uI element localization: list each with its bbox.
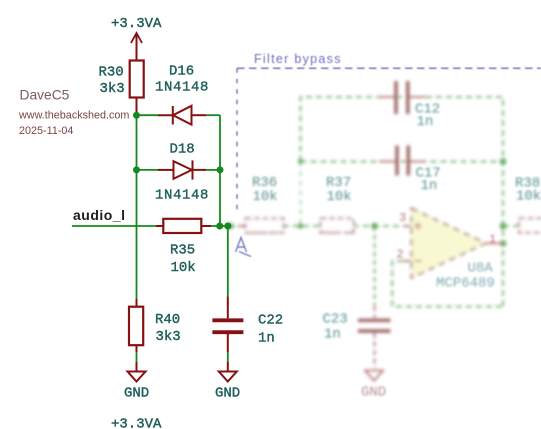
resistor R38 (clipped at right edge) bbox=[519, 219, 541, 233]
wire right vertical (diode return) bbox=[219, 115, 221, 226]
svg-text:D16: D16 bbox=[169, 64, 194, 80]
capacitor C17 bbox=[397, 146, 408, 176]
svg-text:1n: 1n bbox=[258, 331, 275, 347]
svg-text:1N4148: 1N4148 bbox=[155, 80, 209, 96]
svg-text:Filter bypass: Filter bypass bbox=[254, 52, 342, 66]
capacitor C23 pin stubs bbox=[374, 306, 376, 368]
svg-text:10k: 10k bbox=[327, 189, 352, 205]
op-amp + - marks bbox=[414, 222, 422, 261]
svg-text:+3.3VA: +3.3VA bbox=[111, 417, 162, 429]
svg-text:C23: C23 bbox=[323, 312, 348, 328]
svg-text:GND: GND bbox=[361, 385, 386, 401]
svg-text:3k3: 3k3 bbox=[156, 329, 181, 345]
svg-text:R30: R30 bbox=[99, 64, 124, 80]
wire audio_l bbox=[72, 225, 156, 227]
svg-text:R35: R35 bbox=[170, 243, 195, 259]
svg-text:2025-11-04: 2025-11-04 bbox=[19, 125, 73, 137]
node A marker bbox=[236, 238, 252, 257]
op-amp U8A bbox=[412, 209, 486, 278]
svg-text:1n: 1n bbox=[421, 178, 438, 194]
svg-text:1n: 1n bbox=[324, 327, 341, 343]
wire audio path (blurred section) bbox=[229, 225, 403, 227]
capacitor C12 bbox=[396, 81, 408, 114]
svg-text:1: 1 bbox=[489, 233, 496, 247]
wire C22 branch vertical bbox=[227, 226, 229, 296]
wire R36 left pin stub bbox=[238, 225, 246, 227]
svg-text:D18: D18 bbox=[170, 141, 195, 157]
op-amp pin 2 stub bbox=[403, 260, 412, 262]
node junction D16 bbox=[133, 112, 140, 119]
svg-text:1N4148: 1N4148 bbox=[155, 188, 209, 204]
svg-text:www.thebackshed.com: www.thebackshed.com bbox=[18, 110, 129, 122]
svg-text:3: 3 bbox=[399, 211, 406, 225]
svg-text:3k3: 3k3 bbox=[100, 81, 125, 97]
node junction output/R38 bbox=[500, 223, 507, 230]
capacitor C22 bbox=[212, 320, 243, 332]
svg-text:C22: C22 bbox=[258, 312, 283, 328]
svg-text:2: 2 bbox=[397, 248, 404, 262]
ground symbol (C22) bbox=[219, 372, 237, 382]
svg-text:GND: GND bbox=[124, 386, 149, 402]
node junction R36/R37 bbox=[298, 223, 304, 229]
resistor R35 bbox=[156, 225, 163, 227]
svg-text:10k: 10k bbox=[253, 189, 278, 205]
pin numbers U8A bbox=[397, 211, 497, 262]
node junction R35/R36 bbox=[227, 223, 234, 230]
node junction C17 left bbox=[298, 159, 303, 164]
resistor R37 bbox=[321, 219, 354, 233]
node junction output pin bbox=[500, 240, 507, 247]
svg-text:DaveC5: DaveC5 bbox=[20, 87, 70, 102]
svg-text:10k: 10k bbox=[516, 189, 541, 205]
svg-text:R40: R40 bbox=[155, 312, 180, 328]
svg-text:U8A: U8A bbox=[468, 261, 494, 277]
svg-text:audio_l: audio_l bbox=[73, 207, 126, 223]
node junction C17 right bbox=[500, 158, 507, 165]
resistor R36 bbox=[246, 219, 284, 233]
wire top loop (C12 branch) bbox=[301, 97, 504, 307]
op-amp output pin bbox=[486, 242, 504, 244]
svg-text:MCP6489: MCP6489 bbox=[436, 276, 495, 292]
diode D16 bbox=[137, 114, 159, 116]
node junction R37/C23 bbox=[371, 223, 378, 230]
svg-text:1n: 1n bbox=[417, 114, 434, 130]
wire output to R38 bbox=[503, 225, 522, 227]
power +3.3VA top bbox=[131, 33, 142, 60]
wire C17 branch bbox=[301, 161, 504, 163]
svg-text:+3.3VA: +3.3VA bbox=[111, 16, 162, 32]
diode D18 bbox=[137, 169, 159, 171]
node junction D18 bbox=[133, 166, 140, 173]
ground symbol (C23) bbox=[365, 371, 383, 381]
ground symbol (R40) bbox=[128, 372, 146, 382]
wire C23 branch bbox=[374, 226, 376, 306]
svg-text:10k: 10k bbox=[171, 260, 196, 276]
svg-text:GND: GND bbox=[215, 386, 240, 402]
blurred label text layer bbox=[252, 102, 541, 401]
wire left vertical bus bbox=[136, 113, 138, 299]
op-amp pin 3 stub bbox=[403, 225, 412, 227]
resistor R40 bbox=[136, 299, 138, 307]
capacitor C23 bbox=[358, 320, 391, 331]
wire R30 bottom pin bbox=[136, 98, 138, 114]
resistor R30 bbox=[130, 61, 144, 98]
Filter bypass selection box bbox=[237, 68, 541, 211]
wire inverting feedback loop bbox=[392, 261, 503, 307]
